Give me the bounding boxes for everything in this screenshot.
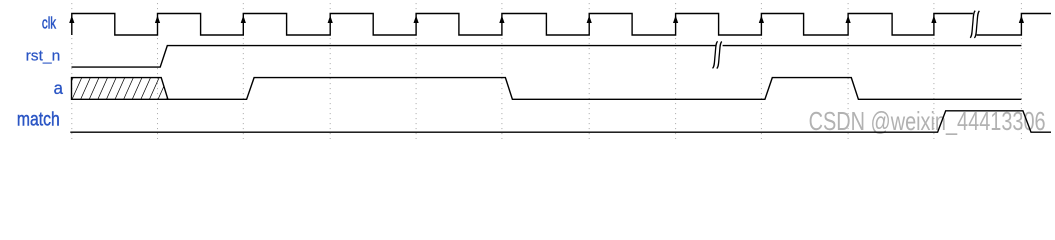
rst_n waveform (72, 46, 1022, 68)
svg-text:match: match (17, 110, 60, 131)
clock-edge gridlines (dotted) (72, 3, 1022, 139)
a waveform (168, 78, 1022, 100)
rst_n break symbol (713, 41, 722, 68)
signal a unknown (hatched) region (63, 77, 177, 101)
clk rising-edge arrows (69, 15, 1024, 23)
svg-text:rst_n: rst_n (26, 48, 61, 65)
svg-text:clk: clk (42, 14, 57, 32)
clk break symbol (970, 11, 979, 38)
match waveform (70, 111, 1051, 132)
clk waveform (72, 14, 1051, 36)
signal a unknown region outline (72, 78, 168, 100)
svg-text:a: a (54, 78, 63, 98)
